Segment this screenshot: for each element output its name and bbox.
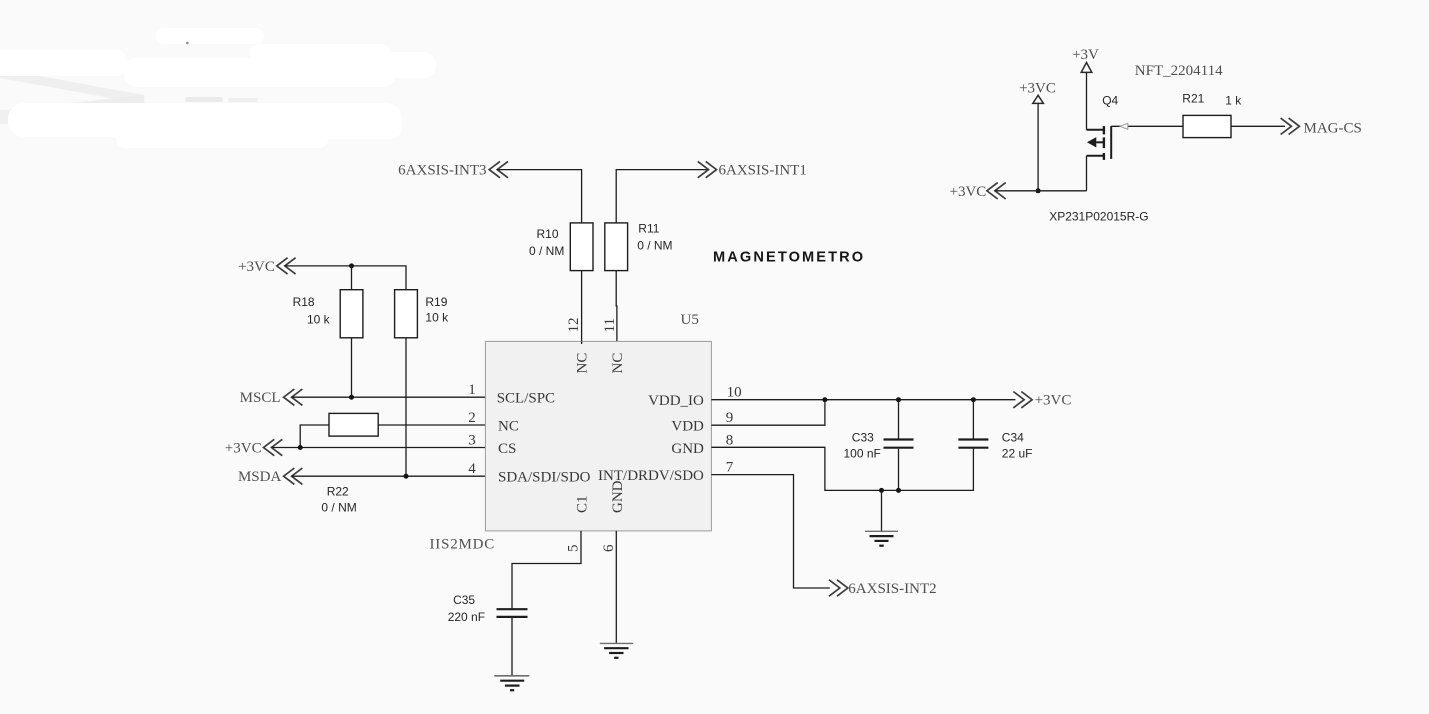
svg-text:R10: R10 bbox=[537, 227, 559, 241]
svg-text:C35: C35 bbox=[453, 593, 475, 607]
resistor R22 bbox=[329, 413, 378, 436]
svg-text:NC: NC bbox=[610, 353, 626, 374]
resistor R18 bbox=[340, 290, 363, 338]
svg-text:NC: NC bbox=[498, 419, 519, 435]
wire MSDA to pin4 bbox=[292, 475, 488, 477]
wire +3VC to pin3 bbox=[272, 447, 489, 449]
svg-text:12: 12 bbox=[566, 318, 582, 333]
power symbol +3V triangle bbox=[1081, 63, 1092, 73]
svg-text:R11: R11 bbox=[638, 222, 659, 236]
wire +3VC to R18 R19 bbox=[285, 266, 406, 290]
svg-text:GND: GND bbox=[610, 480, 626, 513]
wire +3V to Q4 bbox=[1086, 72, 1088, 129]
wire pin6 to ground bbox=[615, 531, 617, 644]
svg-text:1 k: 1 k bbox=[1225, 94, 1242, 108]
node +3VC left-of-Q4 chevron bbox=[987, 183, 1006, 199]
junction dot +3VC/R18 bbox=[349, 263, 354, 268]
svg-text:U5: U5 bbox=[681, 312, 699, 328]
svg-text:NFT_2204114: NFT_2204114 bbox=[1135, 63, 1223, 79]
transistor Q4 bbox=[1087, 126, 1112, 160]
svg-text:R22: R22 bbox=[327, 485, 349, 499]
svg-text:MAGNETOMETRO: MAGNETOMETRO bbox=[713, 249, 865, 265]
op-amp U5 IC body bbox=[485, 341, 711, 531]
svg-text:VDD: VDD bbox=[671, 419, 704, 435]
svg-text:CS: CS bbox=[498, 441, 516, 457]
resistor R19 bbox=[395, 290, 418, 338]
svg-text:2: 2 bbox=[468, 410, 476, 426]
svg-text:GND: GND bbox=[671, 441, 704, 457]
svg-text:100 nF: 100 nF bbox=[844, 447, 881, 461]
whiteout smudges top-left bbox=[0, 28, 436, 148]
svg-text:SCL/SPC: SCL/SPC bbox=[497, 391, 555, 407]
svg-text:IIS2MDC: IIS2MDC bbox=[430, 537, 496, 553]
junction dot +3VC rail bbox=[1036, 188, 1041, 193]
wire pin5 to C35 bbox=[512, 531, 581, 608]
node +3VC right chevron bbox=[1013, 392, 1032, 408]
node +3VC lower-left chevron bbox=[264, 439, 283, 455]
power symbol +3VC triangle bbox=[1033, 95, 1044, 103]
junction dot rail 824 bbox=[822, 397, 827, 402]
wire pin9 up to rail bbox=[711, 400, 825, 426]
svg-text:R19: R19 bbox=[425, 295, 447, 309]
wire R18 top lead bbox=[351, 266, 353, 290]
svg-text:6AXSIS-INT3: 6AXSIS-INT3 bbox=[398, 163, 486, 179]
svg-text:MAG-CS: MAG-CS bbox=[1304, 120, 1362, 136]
svg-text:Q4: Q4 bbox=[1102, 94, 1118, 108]
wire Q4 source down bbox=[1086, 156, 1088, 191]
wire R11 to pin11 bbox=[615, 271, 618, 344]
svg-text:R18: R18 bbox=[293, 295, 315, 309]
node +3VC upper-left chevron bbox=[277, 258, 296, 274]
svg-text:0 / NM: 0 / NM bbox=[637, 239, 672, 253]
svg-text:MSCL: MSCL bbox=[240, 390, 281, 406]
junction dot rail C34 bbox=[971, 397, 976, 402]
wire R22 left to +3VC bbox=[300, 425, 329, 448]
svg-text:+3VC: +3VC bbox=[1035, 393, 1072, 409]
node MSCL chevron bbox=[284, 389, 303, 405]
svg-text:220 nF: 220 nF bbox=[448, 610, 485, 624]
svg-text:7: 7 bbox=[726, 460, 734, 476]
ground below C35 bbox=[494, 676, 529, 690]
svg-text:C1: C1 bbox=[575, 495, 591, 513]
wire R11 to 6AXSIS-INT1 bbox=[616, 170, 707, 223]
svg-text:+3VC: +3VC bbox=[1019, 80, 1056, 96]
svg-text:+3VC: +3VC bbox=[225, 440, 262, 456]
node 6AXSIS-INT3 chevron bbox=[489, 161, 508, 177]
svg-text:10: 10 bbox=[727, 385, 742, 401]
resistor R11 bbox=[605, 223, 628, 271]
wire R22 to pin2 bbox=[378, 424, 488, 426]
svg-text:10 k: 10 k bbox=[307, 312, 331, 326]
svg-text:SDA/SDI/SDO: SDA/SDI/SDO bbox=[498, 470, 591, 486]
svg-text:22 uF: 22 uF bbox=[1002, 447, 1033, 461]
svg-text:0 / NM: 0 / NM bbox=[529, 244, 564, 258]
wire pin8 down to gnd rail bbox=[711, 447, 973, 490]
svg-text:6AXSIS-INT1: 6AXSIS-INT1 bbox=[719, 163, 807, 179]
svg-text:8: 8 bbox=[726, 432, 734, 448]
node 6AXSIS-INT1 chevron bbox=[698, 161, 717, 177]
ground below pin6 bbox=[600, 643, 633, 657]
svg-text:MSDA: MSDA bbox=[238, 469, 282, 485]
node MSDA chevron bbox=[284, 468, 303, 484]
svg-text:XP231P02015R-G: XP231P02015R-G bbox=[1049, 209, 1148, 223]
node MAG-CS chevron bbox=[1281, 118, 1300, 134]
svg-text:+3VC: +3VC bbox=[238, 259, 275, 275]
svg-text:VDD_IO: VDD_IO bbox=[648, 393, 704, 409]
wire R10 to pin12 bbox=[581, 271, 583, 344]
wire MSCL to pin1 bbox=[292, 396, 488, 398]
wire pin7 to 6AXSIS-INT2 bbox=[711, 475, 829, 588]
wire +3VC arrow down to rail bbox=[1037, 103, 1039, 190]
svg-text:+3V: +3V bbox=[1072, 47, 1099, 63]
svg-text:9: 9 bbox=[726, 410, 734, 426]
resistor R21 bbox=[1183, 115, 1231, 137]
junction dot MSDA/R19 bbox=[404, 474, 409, 479]
svg-text:1: 1 bbox=[468, 382, 476, 398]
svg-text:R21: R21 bbox=[1182, 92, 1204, 106]
capacitor C35 bbox=[497, 609, 528, 676]
svg-text:6: 6 bbox=[601, 544, 617, 552]
resistor R10 bbox=[570, 223, 593, 271]
svg-text:4: 4 bbox=[468, 461, 476, 477]
svg-text:3: 3 bbox=[468, 433, 476, 449]
node 6AXSIS-INT2 chevron bbox=[829, 580, 848, 596]
svg-text:6AXSIS-INT2: 6AXSIS-INT2 bbox=[848, 581, 936, 597]
capacitor C33 bbox=[884, 400, 914, 491]
wire R21 to MAG-CS bbox=[1231, 125, 1285, 127]
wire +3VC rail to Q4 bbox=[995, 190, 1087, 192]
junction dot gnd stem bbox=[879, 488, 884, 493]
junction dot gnd C33 bbox=[896, 488, 901, 493]
wire 6AXSIS-INT3 to R10 bbox=[497, 170, 581, 223]
ground below C33 rail bbox=[865, 490, 898, 545]
capacitor C34 bbox=[958, 400, 988, 448]
gate inverted marker bbox=[1120, 123, 1128, 129]
svg-text:+3VC: +3VC bbox=[950, 184, 987, 200]
svg-text:5: 5 bbox=[566, 545, 582, 553]
junction dot +3VC/R22 bbox=[298, 445, 303, 450]
junction dot rail C33 bbox=[896, 397, 901, 402]
svg-text:C34: C34 bbox=[1002, 430, 1024, 444]
wire pin12 top bbox=[581, 341, 583, 344]
wire R19 to MSDA bbox=[405, 338, 407, 476]
svg-text:0 / NM: 0 / NM bbox=[321, 501, 356, 515]
wire pin10 to +3VC bbox=[711, 399, 1015, 401]
wire R18 to MSCL bbox=[351, 338, 353, 397]
svg-text:11: 11 bbox=[602, 318, 618, 332]
svg-text:10 k: 10 k bbox=[425, 310, 449, 324]
svg-text:C33: C33 bbox=[852, 430, 874, 444]
svg-text:NC: NC bbox=[575, 353, 591, 374]
wire gate to R21 bbox=[1111, 125, 1183, 127]
junction dot MSCL/R18 bbox=[349, 395, 354, 400]
